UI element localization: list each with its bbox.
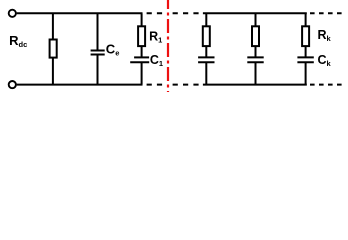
svg-text:Rdc: Rdc <box>9 33 27 49</box>
svg-text:R1: R1 <box>149 29 162 44</box>
svg-text:C1: C1 <box>150 53 163 68</box>
svg-text:Ce: Ce <box>106 42 120 58</box>
svg-text:Rk: Rk <box>318 28 332 43</box>
svg-text:Ck: Ck <box>318 53 332 68</box>
